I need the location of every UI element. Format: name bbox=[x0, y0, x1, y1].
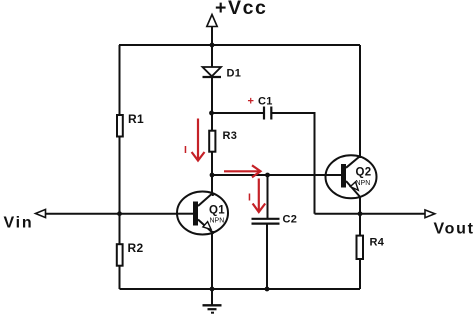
svg-text:+Vcc: +Vcc bbox=[215, 0, 267, 19]
resistor R2 bbox=[117, 244, 123, 266]
svg-text:+: + bbox=[248, 96, 254, 108]
node Vin rail junction bbox=[117, 211, 122, 216]
current arrow I2 (into Q2 base node) bbox=[224, 165, 261, 177]
Vout arrow bbox=[425, 210, 435, 218]
transistor Q2 bbox=[326, 155, 377, 199]
svg-text:Q1: Q1 bbox=[209, 205, 225, 217]
wire center rail bbox=[211, 45, 213, 289]
node Vcc tap bbox=[210, 43, 215, 48]
svg-text:I: I bbox=[184, 144, 187, 156]
transistor Q1 bbox=[177, 192, 228, 235]
wire left rail bbox=[119, 45, 121, 289]
capacitor C1 bbox=[264, 107, 271, 120]
Vin arrow bbox=[36, 209, 46, 217]
node C2 tap bbox=[265, 173, 270, 178]
current arrow I1 (through R3) bbox=[192, 119, 205, 161]
wire C2 upper stub bbox=[267, 175, 269, 218]
svg-text:Q2: Q2 bbox=[356, 167, 372, 179]
wire right rail Q2 collector to Vcc bbox=[359, 45, 361, 214]
svg-text:R1: R1 bbox=[128, 112, 144, 126]
wire Vin line bbox=[45, 213, 195, 215]
wire C1 left bbox=[212, 112, 264, 114]
wire bottom rail bbox=[120, 288, 361, 290]
wire top Vcc rail bbox=[119, 44, 360, 46]
resistor R4 bbox=[357, 236, 364, 259]
wire R4 lower lead bbox=[359, 214, 361, 289]
node R3 bottom junction bbox=[210, 173, 215, 178]
node D1-R3-C1 junction bbox=[209, 111, 214, 116]
svg-text:C1: C1 bbox=[258, 96, 273, 108]
node Q1 emitter bottom bbox=[210, 287, 215, 292]
svg-text:I: I bbox=[248, 192, 251, 204]
svg-text:D1: D1 bbox=[227, 68, 242, 80]
ground bbox=[203, 289, 222, 313]
resistor R3 bbox=[209, 131, 215, 152]
svg-text:Vin: Vin bbox=[4, 215, 34, 232]
+Vcc supply arrow bbox=[207, 15, 217, 46]
current arrow I3 (into C2) bbox=[253, 179, 266, 213]
svg-text:R3: R3 bbox=[223, 130, 238, 142]
diode D1 bbox=[203, 67, 222, 77]
wire C1 right to output node bbox=[272, 113, 315, 214]
svg-text:C2: C2 bbox=[283, 214, 298, 226]
svg-text:NPN: NPN bbox=[210, 218, 225, 225]
capacitor C2 bbox=[252, 219, 280, 224]
svg-text:NPN: NPN bbox=[356, 180, 371, 187]
node Q2 emitter output bbox=[358, 211, 363, 216]
wire output to Vout bbox=[315, 213, 426, 215]
wire Q2 base bbox=[212, 174, 342, 176]
wire C2 lower stub bbox=[266, 224, 268, 289]
svg-text:R2: R2 bbox=[128, 241, 144, 255]
resistor R1 bbox=[117, 115, 123, 137]
node C2 bottom bbox=[265, 287, 270, 292]
svg-text:Vout: Vout bbox=[434, 221, 474, 238]
svg-text:R4: R4 bbox=[370, 237, 385, 249]
